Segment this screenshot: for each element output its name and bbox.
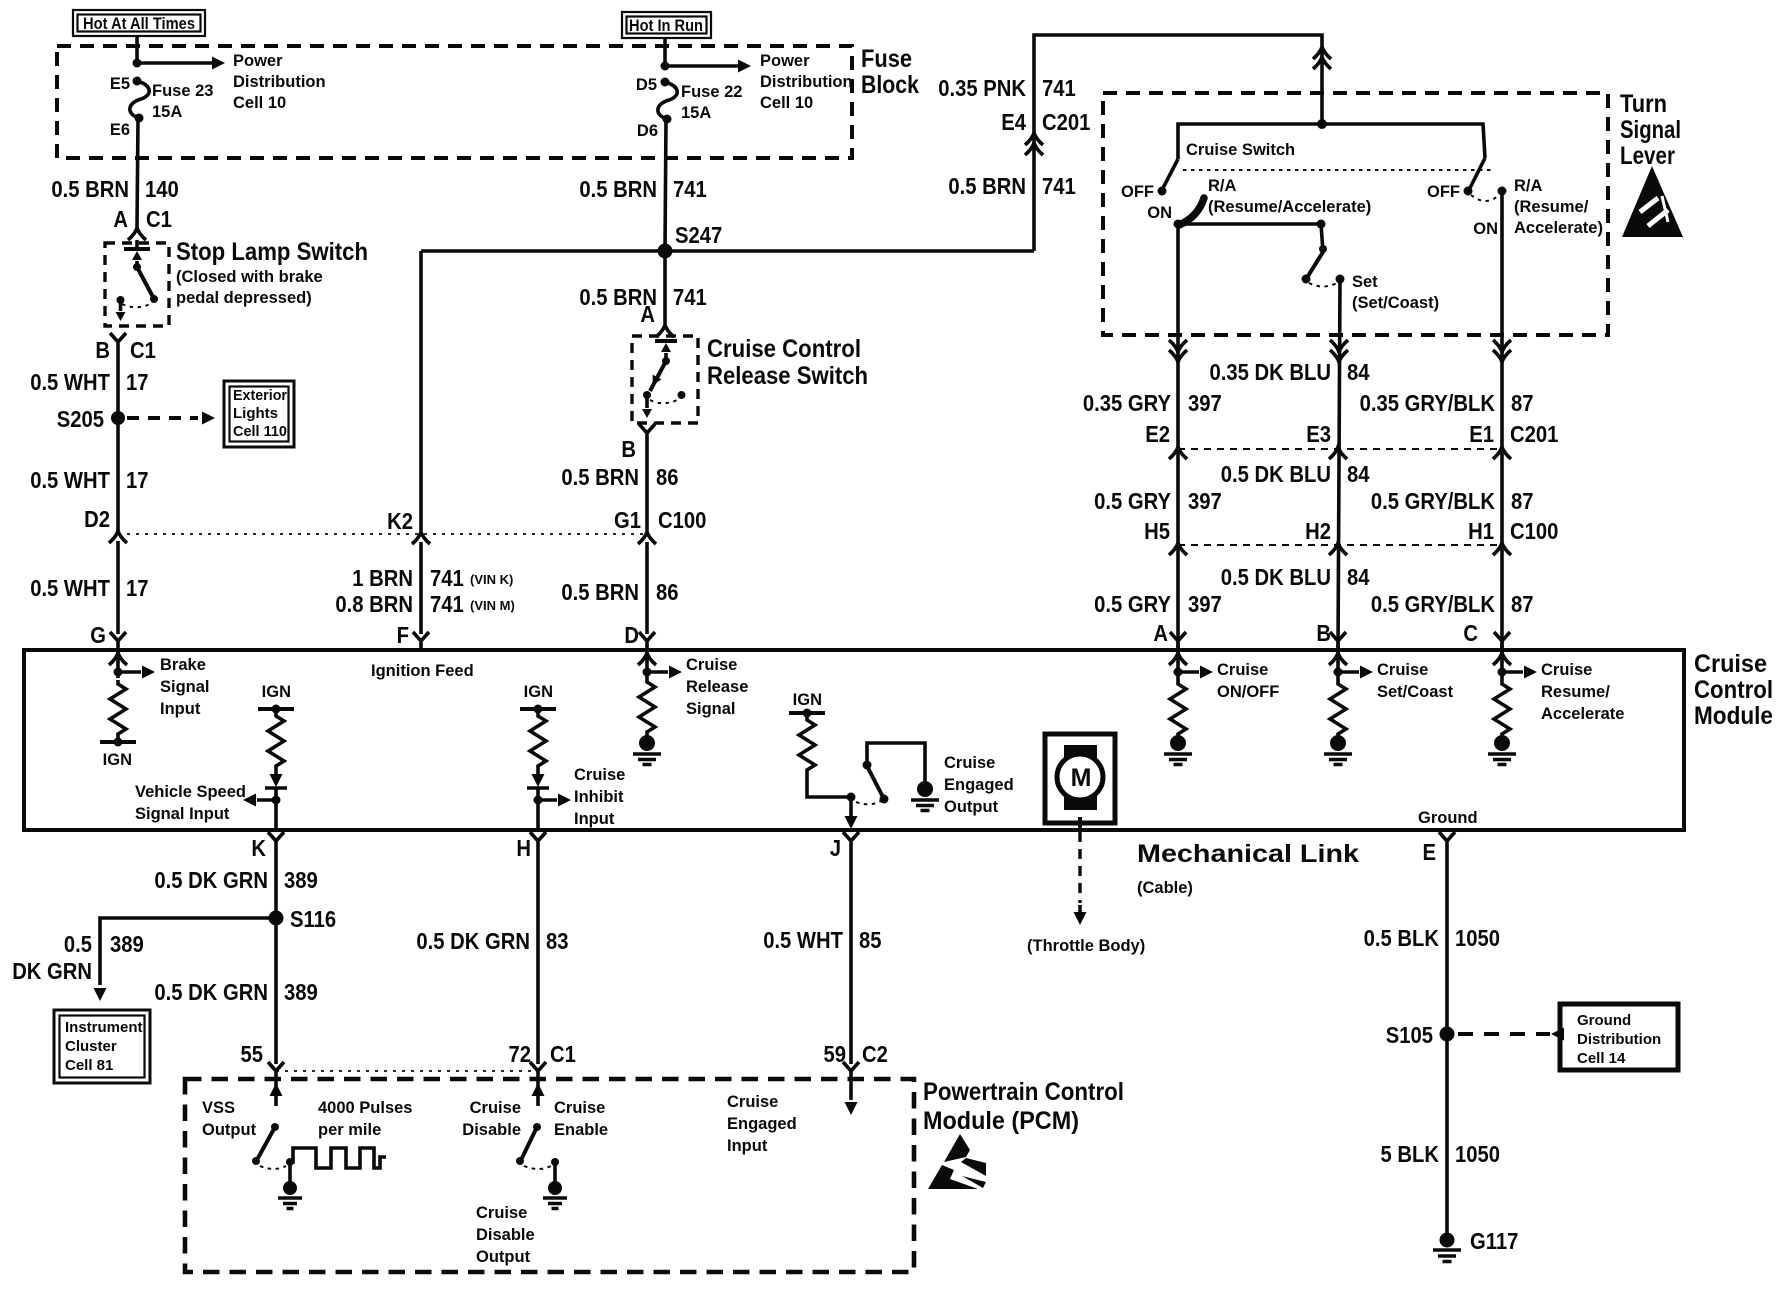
pin E6	[135, 114, 144, 123]
stop lamp switch arrow to bar	[132, 251, 142, 266]
arrow cruise set/coast	[1338, 666, 1373, 679]
svg-text:C2: C2	[862, 1041, 888, 1067]
ground distribution cell 14 box	[1560, 1004, 1678, 1070]
wire pin B internal	[1336, 650, 1340, 680]
cruise engaged switch dotted throw	[856, 801, 881, 804]
wire arrow to power distribution	[665, 60, 751, 73]
svg-text:15A: 15A	[152, 103, 182, 121]
svg-text:(Set/Coast): (Set/Coast)	[1352, 294, 1439, 312]
wire pin C internal	[1500, 650, 1504, 680]
svg-text:Cruise: Cruise	[1694, 650, 1767, 678]
node ON junction	[1174, 220, 1183, 229]
svg-text:15A: 15A	[681, 104, 711, 122]
wire vehicle speed junction chain	[274, 788, 278, 830]
svg-text:Power: Power	[233, 52, 283, 70]
svg-text:86: 86	[656, 579, 679, 605]
cruise on/off switch lever (left)	[1158, 159, 1179, 196]
connector B C1	[110, 333, 126, 353]
cruise enable contact	[551, 1158, 559, 1166]
svg-text:ON: ON	[1147, 204, 1172, 222]
cruise on/off thick throw arc	[1179, 198, 1204, 225]
svg-text:1 BRN: 1 BRN	[352, 565, 413, 591]
node cruise engaged junction	[847, 793, 856, 802]
svg-text:G1: G1	[614, 507, 641, 533]
svg-text:Cruise: Cruise	[1541, 661, 1592, 679]
svg-text:0.5 BRN: 0.5 BRN	[579, 176, 657, 202]
pin D6	[663, 115, 672, 124]
svg-text:Cell 14: Cell 14	[1577, 1050, 1626, 1067]
wire J to 59	[849, 852, 853, 1064]
svg-text:ON: ON	[1473, 220, 1498, 238]
svg-text:(Resume/: (Resume/	[1514, 198, 1589, 216]
svg-text:Inhibit: Inhibit	[574, 788, 624, 806]
svg-text:Accelerate): Accelerate)	[1514, 219, 1603, 237]
svg-text:Vehicle Speed: Vehicle Speed	[135, 783, 246, 801]
svg-text:0.5 DK GRN: 0.5 DK GRN	[416, 928, 530, 954]
svg-text:Distribution: Distribution	[1577, 1031, 1661, 1048]
arrow cruise resume	[1502, 666, 1537, 679]
Hot In Run label box	[622, 12, 711, 38]
svg-text:Brake: Brake	[160, 656, 206, 674]
svg-text:Control: Control	[1694, 676, 1773, 704]
svg-text:C1: C1	[146, 206, 172, 232]
resistor cruise release	[639, 678, 655, 736]
cruise enable contact to ground	[543, 1162, 567, 1209]
svg-text:1050: 1050	[1455, 925, 1500, 951]
pin A internal chevron	[1169, 653, 1187, 665]
connector C1 dotted link 55-72	[276, 1070, 538, 1072]
C201 chevrons	[1169, 447, 1187, 459]
svg-text:Lever: Lever	[1620, 142, 1675, 170]
wire S247 down to A	[663, 251, 667, 324]
svg-text:389: 389	[284, 979, 318, 1005]
svg-text:Output: Output	[202, 1121, 257, 1139]
svg-text:IGN: IGN	[103, 751, 132, 769]
node vehicle speed junction	[272, 796, 281, 805]
wire pin G internal	[116, 650, 120, 678]
svg-text:0.5 WHT: 0.5 WHT	[30, 467, 110, 493]
resistor cruise set	[1330, 680, 1346, 738]
VSS dotted throw arc	[260, 1166, 286, 1169]
svg-text:Cruise Control: Cruise Control	[707, 335, 861, 363]
wire fuse23 to A/C1	[137, 118, 138, 228]
splice S116	[269, 911, 284, 926]
connector B	[639, 424, 655, 444]
svg-text:Cruise: Cruise	[1377, 661, 1428, 679]
resistor cruise resume	[1494, 680, 1510, 738]
node cruise on/off junction	[1174, 668, 1183, 677]
svg-text:0.5 GRY: 0.5 GRY	[1094, 488, 1171, 514]
arrow cruise on/off	[1178, 666, 1213, 679]
wire S116 branch left	[100, 918, 276, 985]
svg-text:IGN: IGN	[262, 683, 291, 701]
connector chevrons on riser	[1313, 47, 1331, 69]
svg-text:K: K	[251, 835, 266, 861]
wire G1 to D	[645, 542, 649, 634]
svg-text:Instrument: Instrument	[65, 1019, 143, 1036]
ground (pin A)	[1164, 735, 1192, 765]
dashed arrow S105 to ground distribution	[1458, 1028, 1564, 1041]
bar cruise inhibit	[527, 786, 549, 790]
svg-text:K2: K2	[387, 508, 413, 534]
svg-text:Power: Power	[760, 52, 810, 70]
svg-text:741: 741	[673, 284, 707, 310]
wire resistor to engaged junction	[807, 774, 851, 797]
fuse F22 symbol	[658, 82, 677, 119]
svg-text:Powertrain Control: Powertrain Control	[923, 1078, 1124, 1106]
svg-text:84: 84	[1347, 564, 1370, 590]
svg-text:55: 55	[241, 1041, 264, 1067]
turn signal hazard triangle icon	[1622, 166, 1683, 237]
svg-text:397: 397	[1188, 591, 1222, 617]
Hot At All Times label box	[73, 10, 205, 36]
splice S247	[658, 244, 673, 259]
arrow down on cruise inhibit branch	[532, 770, 545, 787]
svg-text:741: 741	[1042, 173, 1076, 199]
svg-text:0.5 BLK: 0.5 BLK	[1364, 925, 1440, 951]
svg-text:Ground: Ground	[1577, 1012, 1631, 1029]
ground (pin B)	[1324, 735, 1352, 765]
svg-text:D2: D2	[84, 506, 110, 532]
svg-text:0.8 BRN: 0.8 BRN	[335, 591, 413, 617]
svg-text:0.5 GRY/BLK: 0.5 GRY/BLK	[1371, 488, 1495, 514]
connector C201 dashed line	[1178, 448, 1502, 450]
svg-text:Disable: Disable	[462, 1121, 521, 1139]
svg-text:S205: S205	[57, 406, 104, 432]
svg-text:J: J	[830, 835, 841, 861]
svg-text:Disable: Disable	[476, 1226, 535, 1244]
label 0.5 389 DK GRN	[12, 931, 144, 984]
ground (pin C)	[1488, 735, 1516, 765]
svg-text:Cruise: Cruise	[476, 1204, 527, 1222]
svg-text:0.5 DK GRN: 0.5 DK GRN	[154, 979, 268, 1005]
set contact	[1336, 275, 1345, 284]
cruise control module box	[24, 650, 1684, 830]
disable dotted throw arc	[524, 1166, 551, 1169]
svg-text:0.5 WHT: 0.5 WHT	[30, 575, 110, 601]
svg-text:Fuse 23: Fuse 23	[152, 82, 213, 100]
svg-text:Set/Coast: Set/Coast	[1377, 683, 1454, 701]
svg-text:Block: Block	[861, 71, 919, 99]
cruise r/a switch lever (right)	[1464, 158, 1486, 196]
svg-text:85: 85	[859, 927, 882, 953]
r/a dotted throw arc	[1471, 195, 1499, 201]
wire into stop lamp switch	[135, 240, 139, 247]
svg-text:741: 741	[1042, 75, 1076, 101]
svg-text:R/A: R/A	[1208, 177, 1237, 195]
svg-text:84: 84	[1347, 461, 1370, 487]
svg-text:741: 741	[430, 591, 464, 617]
wire K to S116	[274, 852, 278, 918]
svg-text:(Throttle Body): (Throttle Body)	[1027, 937, 1145, 955]
svg-text:Exterior: Exterior	[233, 387, 287, 404]
svg-text:Set: Set	[1352, 273, 1378, 291]
svg-text:0.5 GRY/BLK: 0.5 GRY/BLK	[1371, 591, 1495, 617]
stop lamp switch contact bar	[124, 247, 150, 251]
cruise switch feed bus	[1178, 124, 1485, 159]
svg-text:4000 Pulses: 4000 Pulses	[318, 1099, 413, 1117]
svg-text:17: 17	[126, 575, 149, 601]
svg-text:Signal: Signal	[160, 678, 210, 696]
svg-text:72: 72	[509, 1041, 532, 1067]
svg-text:Cruise: Cruise	[554, 1099, 605, 1117]
svg-text:S116: S116	[290, 906, 336, 932]
wire branch down to K2	[419, 251, 423, 531]
svg-text:G: G	[90, 622, 106, 648]
stop lamp switch exit arrow	[116, 300, 126, 321]
svg-text:0.5 BRN: 0.5 BRN	[948, 173, 1026, 199]
svg-text:0.5 BRN: 0.5 BRN	[561, 579, 639, 605]
svg-text:389: 389	[110, 931, 144, 957]
pin E5	[133, 77, 142, 86]
svg-text:Signal: Signal	[686, 700, 736, 718]
wire arrow to power distribution	[137, 57, 225, 70]
node cruise inhibit junction	[534, 796, 543, 805]
turn signal lever dashed box	[1103, 93, 1608, 335]
svg-text:C100: C100	[658, 507, 706, 533]
svg-text:(Closed with brake: (Closed with brake	[176, 268, 323, 286]
svg-text:83: 83	[546, 928, 569, 954]
release switch exit arrow	[642, 395, 652, 418]
svg-text:OFF: OFF	[1427, 183, 1460, 201]
svg-text:D6: D6	[637, 122, 658, 140]
release switch lever	[643, 357, 670, 399]
wire S247 horizontal net	[421, 249, 1034, 253]
svg-text:A: A	[113, 206, 128, 232]
svg-text:Cruise: Cruise	[727, 1093, 778, 1111]
wire resume/accel column	[1500, 191, 1504, 650]
node cruise release junction	[643, 668, 652, 677]
release switch dotted throw arc	[650, 399, 679, 403]
svg-text:1050: 1050	[1455, 1141, 1500, 1167]
svg-text:Cruise: Cruise	[470, 1099, 521, 1117]
svg-text:(VIN M): (VIN M)	[470, 598, 515, 613]
svg-text:DK GRN: DK GRN	[12, 958, 92, 984]
fuse block dashed box	[57, 46, 852, 158]
svg-text:(VIN K): (VIN K)	[470, 572, 513, 587]
ESD symbol	[928, 1134, 986, 1189]
svg-text:87: 87	[1511, 488, 1534, 514]
svg-text:389: 389	[284, 867, 318, 893]
svg-text:B: B	[1316, 620, 1331, 646]
wire 59 into PCM arrow down	[845, 1082, 858, 1115]
node cruise resume junction	[1498, 668, 1507, 677]
svg-text:Distribution: Distribution	[760, 73, 853, 91]
svg-text:E: E	[1423, 839, 1437, 865]
wire 72 into PCM arrow up	[532, 1082, 545, 1106]
bar vehicle speed	[265, 786, 287, 790]
svg-text:Hot At All Times: Hot At All Times	[83, 15, 195, 33]
label 0.8 BRN 741 (VIN M)	[335, 591, 514, 617]
svg-text:per mile: per mile	[318, 1121, 381, 1139]
svg-text:C1: C1	[130, 337, 156, 363]
arrow vehicle speed left	[243, 794, 276, 807]
wire K2 to F	[419, 542, 423, 634]
connector C100 dashed line (right)	[1178, 544, 1502, 546]
arrow cruise inhibit right	[538, 794, 571, 807]
svg-text:pedal depressed): pedal depressed)	[176, 289, 312, 307]
svg-text:H1: H1	[1468, 518, 1494, 544]
svg-text:R/A: R/A	[1514, 177, 1543, 195]
resistor cruise engaged	[799, 716, 815, 774]
pin B internal chevron	[1329, 653, 1347, 665]
svg-text:0.35 GRY: 0.35 GRY	[1083, 390, 1171, 416]
svg-text:G117: G117	[1470, 1228, 1518, 1254]
svg-text:H2: H2	[1305, 518, 1331, 544]
IGN bar (pin K)	[258, 705, 294, 714]
svg-text:Fuse 22: Fuse 22	[681, 83, 742, 101]
svg-text:Mechanical Link: Mechanical Link	[1137, 840, 1359, 868]
svg-text:741: 741	[430, 565, 464, 591]
wire 55 into PCM arrow up	[270, 1082, 283, 1106]
svg-text:Engaged: Engaged	[727, 1115, 797, 1133]
release switch contact bar	[655, 339, 677, 343]
svg-text:17: 17	[126, 369, 149, 395]
svg-text:0.5: 0.5	[64, 931, 92, 957]
svg-text:Hot In Run: Hot In Run	[629, 17, 703, 35]
release switch right contact	[678, 391, 686, 399]
arrow brake signal	[118, 666, 155, 679]
svg-text:Cruise: Cruise	[944, 754, 995, 772]
svg-text:0.5 WHT: 0.5 WHT	[763, 927, 843, 953]
svg-text:Turn: Turn	[1620, 90, 1667, 118]
svg-text:87: 87	[1511, 591, 1534, 617]
svg-text:Engaged: Engaged	[944, 776, 1014, 794]
svg-text:Signal: Signal	[1620, 116, 1681, 144]
svg-text:Cell 81: Cell 81	[65, 1057, 113, 1074]
wire S247 corner up right	[1034, 35, 1322, 251]
svg-text:Cell 110: Cell 110	[233, 423, 287, 440]
C100 chevrons	[1169, 543, 1187, 555]
ground (cruise engaged)	[911, 781, 939, 811]
resistor cruise on/off	[1170, 680, 1186, 738]
svg-text:C201: C201	[1042, 109, 1091, 135]
IGN bar (pin J)	[789, 709, 825, 718]
pin D internal chevron	[638, 653, 656, 665]
svg-text:140: 140	[145, 176, 179, 202]
svg-text:0.5 BRN: 0.5 BRN	[51, 176, 129, 202]
resistor brake pull-up	[110, 680, 126, 738]
svg-text:0.5 GRY: 0.5 GRY	[1094, 591, 1171, 617]
svg-text:86: 86	[656, 464, 679, 490]
svg-text:F: F	[397, 622, 409, 648]
svg-text:Ground: Ground	[1418, 809, 1478, 827]
arrow to instrument cluster	[94, 988, 107, 1001]
svg-text:5 BLK: 5 BLK	[1381, 1141, 1440, 1167]
VSS switch lever	[252, 1123, 279, 1165]
wire B to S205	[116, 353, 120, 418]
svg-text:0.35 DK BLU: 0.35 DK BLU	[1210, 359, 1332, 385]
connector C100 dotted line (left)	[118, 533, 647, 535]
svg-text:C: C	[1463, 620, 1478, 646]
svg-text:D: D	[624, 622, 639, 648]
svg-text:E6: E6	[110, 121, 130, 139]
arrow down on vehicle speed branch	[270, 770, 283, 787]
r/a contact	[1498, 187, 1507, 196]
svg-text:M: M	[1071, 764, 1092, 792]
svg-text:E2: E2	[1145, 421, 1170, 447]
wire label-box to fuse box	[663, 38, 667, 65]
svg-text:Enable: Enable	[554, 1121, 608, 1139]
svg-text:Module: Module	[1694, 702, 1773, 730]
wire fuse22 to S247	[665, 119, 666, 251]
svg-text:Signal Input: Signal Input	[135, 805, 230, 823]
pulse generator to ground	[278, 1162, 302, 1209]
svg-text:IGN: IGN	[793, 691, 822, 709]
svg-text:17: 17	[126, 467, 149, 493]
svg-text:Input: Input	[727, 1137, 768, 1155]
svg-text:0.5 BRN: 0.5 BRN	[561, 464, 639, 490]
svg-text:Fuse: Fuse	[861, 45, 912, 73]
instrument cluster cell 81 box	[54, 1010, 150, 1083]
svg-text:Cluster: Cluster	[65, 1038, 117, 1055]
svg-text:397: 397	[1188, 488, 1222, 514]
svg-text:C201: C201	[1510, 421, 1559, 447]
svg-text:H5: H5	[1144, 518, 1170, 544]
wire S105 to G117	[1445, 1034, 1449, 1236]
arrow to throttle body	[1074, 905, 1087, 925]
wire S205 to D2	[116, 418, 120, 531]
svg-text:Release Switch: Release Switch	[707, 362, 868, 390]
svg-text:E1: E1	[1469, 421, 1494, 447]
stop lamp switch S/L box	[105, 243, 169, 326]
node feed junction	[1317, 119, 1327, 129]
exterior lights cell 110 box	[224, 381, 294, 447]
mechanical link dashed cable	[1078, 832, 1081, 903]
svg-text:Accelerate: Accelerate	[1541, 705, 1624, 723]
stop lamp switch dotted throw arc	[122, 303, 152, 307]
connector chevrons leaving lever	[1169, 340, 1187, 362]
resistor vehicle speed	[268, 712, 284, 770]
IGN bar (pin G)	[100, 738, 136, 747]
svg-text:0.35 GRY/BLK: 0.35 GRY/BLK	[1360, 390, 1496, 416]
set dotted throw arc	[1309, 283, 1337, 287]
ground G117	[1433, 1233, 1461, 1262]
svg-text:B: B	[621, 436, 636, 462]
label 1 BRN 741 (VIN K)	[352, 565, 513, 591]
svg-text:Output: Output	[476, 1248, 531, 1266]
svg-text:Release: Release	[686, 678, 748, 696]
svg-text:Output: Output	[944, 798, 999, 816]
arrow cruise engaged to pin J	[845, 797, 858, 829]
ground (pin D internal)	[633, 735, 661, 765]
stop lamp switch left contact	[117, 296, 125, 304]
svg-text:VSS: VSS	[202, 1099, 235, 1117]
pin G internal chevron	[109, 653, 127, 665]
svg-text:B: B	[95, 337, 110, 363]
svg-text:0.5 DK BLU: 0.5 DK BLU	[1221, 461, 1331, 487]
svg-text:Cell 10: Cell 10	[760, 94, 813, 112]
svg-text:OFF: OFF	[1121, 183, 1154, 201]
pulse generator square wave	[290, 1148, 386, 1168]
svg-text:Resume/: Resume/	[1541, 683, 1610, 701]
svg-text:D5: D5	[636, 76, 657, 94]
wire S116 to pin 55	[274, 918, 278, 1064]
wire ON to set switch	[1178, 222, 1321, 226]
svg-text:0.35 PNK: 0.35 PNK	[938, 75, 1026, 101]
motor M servo	[1045, 734, 1115, 830]
stop lamp switch lever	[133, 263, 158, 303]
svg-text:87: 87	[1511, 390, 1534, 416]
node fuse22 top junction	[661, 62, 670, 71]
splice S105	[1440, 1027, 1455, 1042]
IGN bar (pin H)	[520, 705, 556, 714]
wire H to 72	[536, 852, 540, 1064]
svg-text:Ignition Feed: Ignition Feed	[371, 662, 474, 680]
svg-text:397: 397	[1188, 390, 1222, 416]
wire pin A internal	[1176, 650, 1180, 680]
svg-text:Cruise: Cruise	[574, 766, 625, 784]
